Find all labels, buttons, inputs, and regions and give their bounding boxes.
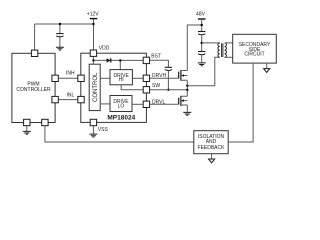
wire rail to VDD pin xyxy=(93,24,95,50)
pin box PWM top xyxy=(31,50,37,56)
pin box U1 INH xyxy=(78,75,84,81)
node dot SW-rail xyxy=(186,89,188,91)
node dot VDD internal xyxy=(92,59,94,61)
wire C3 to ground xyxy=(201,55,203,63)
wire C2 to C3 xyxy=(201,35,203,51)
wire DRVL to Q2 gate xyxy=(150,103,179,105)
svg-text:VSS: VSS xyxy=(98,127,109,133)
earth ground isolation xyxy=(209,159,215,163)
power bar +12V xyxy=(90,18,98,20)
wire INH PWM to U1 xyxy=(59,77,78,79)
wire rail to C1 xyxy=(59,24,61,33)
pin box U1 BST xyxy=(143,57,149,63)
wire PWM feedback to isolation xyxy=(45,126,194,142)
svg-text:CONTROL: CONTROL xyxy=(93,72,99,102)
svg-text:FEEDBACK: FEEDBACK xyxy=(198,145,226,151)
transformer T1 primary winding xyxy=(218,43,220,57)
earth ground secondary xyxy=(264,69,270,73)
pin box U1 DRVL xyxy=(143,101,149,107)
capacitor C2 plates xyxy=(198,31,205,33)
wire boot cap to SW xyxy=(167,71,169,90)
svg-text:VDD: VDD xyxy=(99,45,110,51)
svg-text:HI: HI xyxy=(119,77,124,83)
svg-text:INL: INL xyxy=(67,92,75,98)
node dot rail-VDD junction xyxy=(92,23,94,25)
node dot 48V-drain xyxy=(201,24,203,26)
wire BST branch to drive hi xyxy=(119,60,121,69)
pin box PWM fb xyxy=(42,119,48,125)
ground under C1 xyxy=(56,47,64,50)
ground VSS xyxy=(89,134,97,137)
node dot rail-cap junction xyxy=(59,23,61,25)
node dot SW-xfmr xyxy=(186,85,188,87)
svg-text:LO: LO xyxy=(118,103,125,109)
wire BST to boot cap xyxy=(150,60,168,67)
PWM controller box xyxy=(12,53,55,122)
wire VDD internal xyxy=(92,57,94,64)
diode D1 internal xyxy=(107,58,111,62)
wire drive lo to DRVL pin xyxy=(132,103,143,105)
wire isolation earth stub xyxy=(211,154,213,159)
wire +12V stub xyxy=(93,19,95,24)
pin box U1 VDD xyxy=(90,50,96,56)
wire drive hi to SW pin xyxy=(121,85,143,90)
wire DRVH to Q1 gate xyxy=(150,77,179,79)
wire SW rail xyxy=(150,89,187,91)
secondary side circuit box xyxy=(233,34,277,63)
wire midpoint to primary xyxy=(202,42,220,44)
wire Q1 drain to 48V xyxy=(187,25,201,71)
svg-text:+12V: +12V xyxy=(87,12,99,18)
wire secondary box earth stub xyxy=(266,63,268,69)
wire +12V rail xyxy=(35,23,94,25)
capacitor C1 plates xyxy=(56,33,63,35)
wire SW to transformer xyxy=(187,57,219,85)
node dot cap midpoint xyxy=(201,42,203,44)
wire control to drive lo xyxy=(100,103,110,105)
power bar 48V xyxy=(198,18,206,20)
wire secondary bottom xyxy=(225,56,233,58)
svg-text:48V: 48V xyxy=(196,11,206,17)
pin box PWM gnd xyxy=(24,119,30,125)
op chip U1 MP18024 outline xyxy=(81,53,147,122)
svg-text:SW: SW xyxy=(152,83,160,89)
wire Q1 source down xyxy=(186,80,188,96)
capacitor boot plates xyxy=(165,66,172,68)
wire Q2 source to ground xyxy=(186,105,188,112)
control block xyxy=(89,64,100,110)
ground under C3 xyxy=(198,63,206,66)
wire PWM ground pin stub xyxy=(26,126,28,131)
svg-text:BST: BST xyxy=(151,53,161,59)
node dot BST branch xyxy=(119,59,121,61)
svg-text:CIRCUIT: CIRCUIT xyxy=(244,52,264,58)
wire 48V stub xyxy=(201,19,203,31)
drive lo block xyxy=(110,96,132,112)
pin box U1 DRVH xyxy=(143,75,149,81)
wire rail to PWM top pin xyxy=(34,24,36,50)
wire VSS pin stub xyxy=(92,126,94,134)
isolation and feedback box xyxy=(194,131,228,154)
wire control to drive hi xyxy=(100,77,110,79)
transformer T1 secondary winding xyxy=(225,43,227,57)
transistor Q1 high-side xyxy=(178,72,180,79)
svg-text:INH: INH xyxy=(66,70,75,76)
ground under PWM xyxy=(23,131,31,134)
node dot boot-SW xyxy=(167,89,169,91)
pin box PWM INL xyxy=(52,96,58,102)
wire secondary box to isolation xyxy=(228,63,253,142)
pin box U1 INL xyxy=(78,96,84,102)
pin box PWM INH xyxy=(52,75,58,81)
wire INL PWM to U1 xyxy=(59,99,78,101)
pin box U1 SW xyxy=(143,87,149,93)
ground Q2 xyxy=(183,112,191,115)
transistor Q2 low-side xyxy=(178,98,180,105)
capacitor C3 plates xyxy=(198,51,205,53)
drive hi block xyxy=(110,70,132,85)
transformer core xyxy=(222,43,223,57)
wire drive hi to DRVH pin xyxy=(132,77,142,79)
svg-text:CONTROLLER: CONTROLLER xyxy=(16,87,51,93)
wire secondary top xyxy=(225,42,233,44)
svg-text:MP18024: MP18024 xyxy=(107,114,135,121)
pin box U1 VSS xyxy=(90,119,96,125)
wire C1 to ground xyxy=(59,37,61,47)
